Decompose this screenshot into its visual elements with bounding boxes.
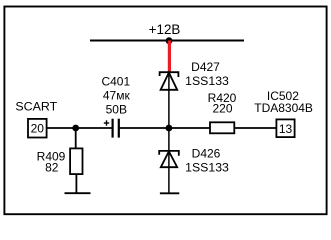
junction node at diode column — [166, 125, 173, 132]
wire center node down to D426 cathode — [168, 128, 170, 151]
svg-text:+12B: +12B — [149, 22, 181, 37]
svg-text:1SS133: 1SS133 — [185, 160, 229, 174]
wire pin 20 to node A and C401 — [47, 127, 113, 129]
diode D426 — [159, 151, 179, 167]
svg-text:220: 220 — [212, 102, 232, 116]
svg-text:13: 13 — [279, 122, 293, 136]
wire C401 to R420 — [119, 127, 210, 129]
svg-text:TDA8304B: TDA8304B — [254, 101, 313, 115]
wire +12B rail — [90, 40, 244, 42]
wire (red) from +12B rail to D427 cathode — [168, 41, 171, 73]
svg-text:1SS133: 1SS133 — [185, 74, 229, 88]
pin 13 (IC502) — [276, 119, 294, 137]
diode D427 — [160, 72, 179, 90]
junction dot on +12B rail — [166, 37, 173, 44]
svg-text:50В: 50В — [106, 102, 127, 116]
svg-text:C401: C401 — [101, 74, 130, 88]
capacitor C401 — [113, 119, 119, 138]
resistor R409 — [70, 148, 82, 174]
svg-text:20: 20 — [31, 122, 45, 136]
wire D427 anode down to center node — [168, 73, 170, 129]
wire R420 to pin 13 — [234, 127, 276, 129]
svg-text:D427: D427 — [191, 60, 220, 74]
ground bar below R409 — [65, 192, 91, 194]
resistor R420 — [210, 122, 234, 133]
junction node A — [72, 125, 79, 132]
wire R409 to ground — [75, 174, 77, 193]
svg-text:SCART: SCART — [15, 99, 57, 113]
svg-text:47мк: 47мк — [103, 88, 131, 102]
pin 20 (SCART connector) — [28, 119, 47, 138]
wire D426 anode to ground — [168, 151, 170, 193]
wire node A down to R409 — [75, 128, 77, 148]
polarity + of C401 — [104, 120, 109, 125]
ground bar below D426 — [160, 192, 179, 194]
svg-text:D426: D426 — [192, 147, 221, 161]
svg-text:82: 82 — [45, 160, 59, 174]
